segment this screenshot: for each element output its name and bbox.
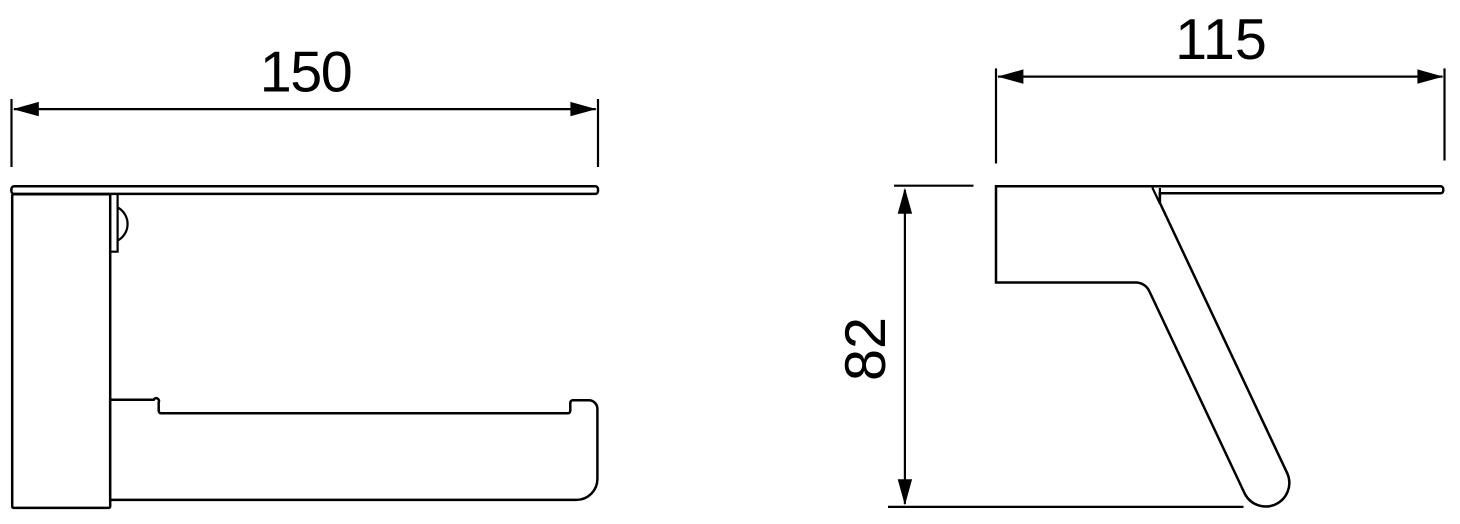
svg-text:115: 115 [1175, 8, 1267, 72]
svg-text:150: 150 [260, 41, 351, 105]
svg-text:82: 82 [834, 317, 898, 381]
